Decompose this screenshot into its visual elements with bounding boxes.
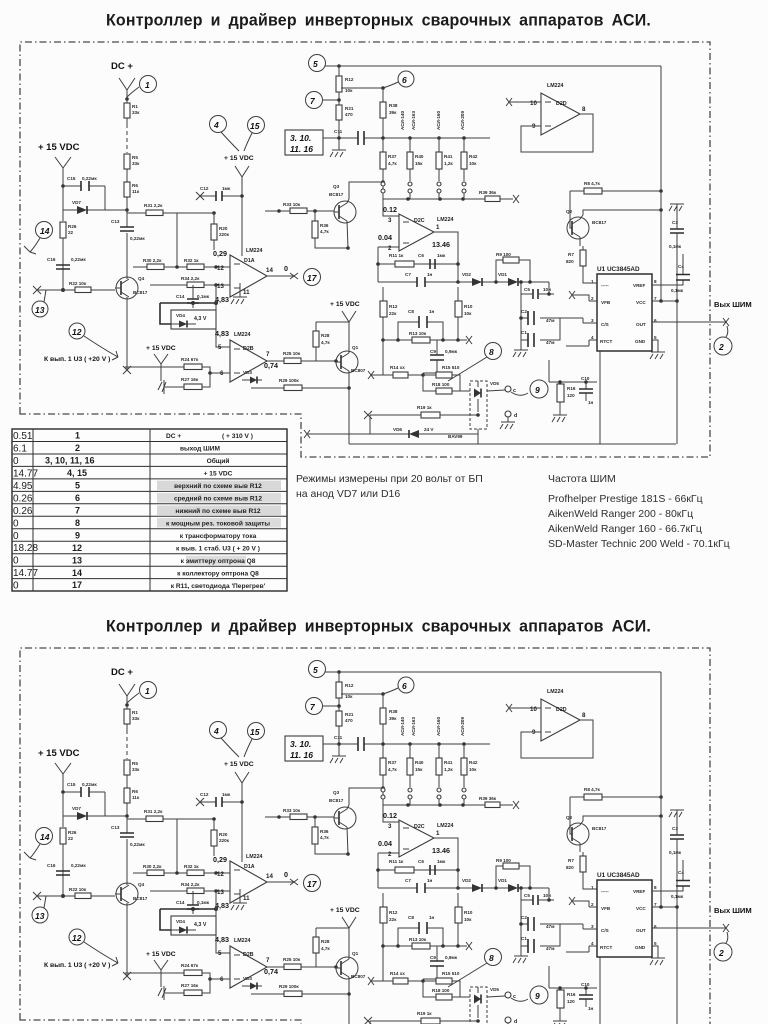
svg-text:7: 7 bbox=[75, 505, 80, 515]
wire c to 9 bbox=[511, 392, 528, 395]
svg-text:13.46: 13.46 bbox=[432, 240, 450, 249]
svg-text:R7: R7 bbox=[568, 252, 574, 257]
svg-text:4,83: 4,83 bbox=[215, 329, 229, 338]
RTCT wire bbox=[566, 340, 589, 346]
svg-text:0: 0 bbox=[13, 531, 19, 542]
svg-text:на анод VD7 или D16: на анод VD7 или D16 bbox=[296, 488, 400, 500]
bus wire with C11 bbox=[323, 137, 490, 139]
svg-text:выход ШИМ: выход ШИМ bbox=[180, 446, 221, 453]
svg-text:2: 2 bbox=[591, 296, 594, 301]
terminal Y mid bbox=[235, 166, 249, 196]
svg-text:8: 8 bbox=[489, 347, 494, 357]
svg-text:5: 5 bbox=[313, 59, 318, 69]
svg-text:C6: C6 bbox=[418, 253, 424, 258]
svg-text:R8 4,7к: R8 4,7к bbox=[584, 181, 601, 186]
op-amp D2C LM224 bbox=[399, 214, 434, 251]
svg-text:2: 2 bbox=[388, 245, 392, 252]
inner vertical under U1 bbox=[599, 351, 601, 444]
svg-text:47м: 47м bbox=[546, 318, 555, 323]
svg-text:7: 7 bbox=[266, 351, 270, 358]
resistor R12 10k bbox=[336, 76, 342, 92]
svg-text:R31 2,2к: R31 2,2к bbox=[144, 203, 163, 208]
open contact dots column 3 bbox=[437, 182, 441, 186]
svg-text:7: 7 bbox=[654, 296, 657, 301]
svg-text:VD7: VD7 bbox=[72, 200, 81, 205]
ground under cap rail bbox=[513, 350, 528, 357]
svg-text:VCC: VCC bbox=[636, 300, 646, 305]
Q4 emitter wire bbox=[126, 302, 128, 370]
svg-text:0: 0 bbox=[13, 518, 19, 529]
junction bbox=[61, 184, 65, 188]
transistor Q2 BC817 bbox=[567, 217, 589, 239]
svg-text:R28: R28 bbox=[321, 333, 330, 338]
svg-text:0,22мк: 0,22мк bbox=[82, 176, 97, 181]
svg-text:C5: C5 bbox=[524, 287, 530, 292]
right bus vertical bbox=[660, 66, 662, 301]
opto dashed box bbox=[470, 381, 487, 429]
measurement bus wire bbox=[383, 198, 513, 200]
junction dots on bus bbox=[381, 136, 385, 140]
wire node7 to R21 bbox=[323, 99, 339, 101]
svg-text:10к: 10к bbox=[469, 161, 477, 166]
node 2 bbox=[714, 337, 732, 355]
svg-text:D2C: D2C bbox=[414, 218, 425, 224]
svg-text:24 V: 24 V bbox=[424, 427, 434, 432]
svg-text:0,1мк: 0,1мк bbox=[669, 244, 682, 249]
resistor R7 820 bbox=[580, 250, 586, 266]
junction dots bbox=[396, 338, 400, 342]
svg-text:R19 1к: R19 1к bbox=[417, 405, 432, 410]
node 13 bbox=[32, 301, 48, 317]
transistor Q1 BC807 bbox=[336, 351, 358, 373]
junction bbox=[125, 97, 129, 101]
wires columns to bus bbox=[410, 193, 464, 199]
svg-text:+ 15 VDC: + 15 VDC bbox=[330, 301, 360, 308]
open contact dots column 2 bbox=[408, 182, 412, 186]
svg-text:18.28: 18.28 bbox=[13, 543, 38, 554]
wire node13 up bbox=[44, 290, 46, 302]
svg-text:6: 6 bbox=[402, 75, 407, 85]
svg-text:6.1: 6.1 bbox=[13, 444, 27, 455]
wire VD4 to D2B input bbox=[216, 285, 230, 347]
VCC rail down to bus bbox=[676, 301, 678, 444]
svg-text:11. 16: 11. 16 bbox=[290, 144, 313, 154]
svg-text:33к: 33к bbox=[132, 161, 140, 166]
svg-text:R32 1к: R32 1к bbox=[184, 258, 199, 263]
svg-text:R26: R26 bbox=[68, 224, 77, 229]
ground left of R27 bbox=[158, 380, 170, 394]
svg-text:R11 1к: R11 1к bbox=[389, 253, 404, 258]
svg-text:0,29: 0,29 bbox=[213, 249, 227, 258]
junction bbox=[214, 283, 218, 287]
terminal x R14 bbox=[368, 371, 374, 379]
junction bbox=[277, 209, 281, 213]
svg-text:R40: R40 bbox=[415, 154, 424, 159]
svg-text:R39 36к: R39 36к bbox=[479, 190, 497, 195]
svg-text:8: 8 bbox=[654, 279, 657, 284]
svg-text:DC +: DC + bbox=[166, 433, 181, 440]
svg-text:DC +: DC + bbox=[111, 61, 133, 72]
svg-text:3: 3 bbox=[388, 217, 392, 224]
svg-text:d: d bbox=[514, 413, 517, 419]
VFB wire bbox=[569, 291, 589, 301]
svg-text:АСИ-140: АСИ-140 bbox=[400, 111, 405, 130]
transistor Q4 BC817 bbox=[116, 277, 138, 299]
svg-text:1: 1 bbox=[591, 279, 594, 284]
zener box VD4 4,3V bbox=[171, 310, 216, 329]
svg-text:0.12: 0.12 bbox=[383, 205, 397, 214]
terminal arrow below node 14 bbox=[24, 238, 40, 254]
highlight shading bbox=[157, 481, 281, 491]
junction bbox=[476, 413, 480, 417]
svg-text:BAV99: BAV99 bbox=[448, 434, 463, 439]
svg-text:1: 1 bbox=[145, 80, 150, 90]
svg-text:R12: R12 bbox=[389, 304, 398, 309]
junction bbox=[456, 280, 460, 284]
svg-text:13: 13 bbox=[35, 305, 45, 315]
svg-text:BC817: BC817 bbox=[592, 220, 607, 225]
svg-text:C13: C13 bbox=[111, 219, 120, 224]
svg-text:R25 10к: R25 10к bbox=[283, 351, 301, 356]
ground at C3 bbox=[669, 204, 684, 229]
svg-text:2: 2 bbox=[718, 342, 724, 352]
junction dots R11 net bbox=[376, 262, 380, 266]
svg-text:R10: R10 bbox=[464, 304, 473, 309]
svg-text:AikenWeld Ranger 160 - 66.7кГц: AikenWeld Ranger 160 - 66.7кГц bbox=[548, 523, 702, 535]
junction bbox=[208, 371, 212, 375]
svg-text:14.77: 14.77 bbox=[13, 468, 38, 479]
svg-text:4,7к: 4,7к bbox=[321, 340, 330, 345]
svg-text:к трансформатору тока: к трансформатору тока bbox=[180, 533, 257, 540]
svg-text:1мк: 1мк bbox=[222, 186, 231, 191]
terminal c bbox=[505, 386, 511, 392]
svg-text:17: 17 bbox=[72, 580, 82, 590]
wire R12 tap to node 6 bbox=[341, 82, 398, 88]
ground under R16 bbox=[552, 415, 567, 422]
svg-text:VD5: VD5 bbox=[490, 381, 499, 386]
wires nodes 4/15 to +15VDC bbox=[221, 132, 252, 151]
terminal d bbox=[505, 411, 511, 417]
svg-text:120: 120 bbox=[567, 393, 575, 398]
svg-text:LM224: LM224 bbox=[246, 248, 263, 254]
svg-text:C9: C9 bbox=[430, 349, 436, 354]
pin 11 ground bbox=[231, 283, 247, 304]
svg-text:Общий: Общий bbox=[207, 457, 230, 465]
zener diode symbol bbox=[171, 323, 196, 325]
svg-text:Вых ШИМ: Вых ШИМ bbox=[714, 300, 752, 309]
svg-text:0.04: 0.04 bbox=[378, 233, 392, 242]
svg-text:AikenWeld Ranger 200 - 80кГц: AikenWeld Ranger 200 - 80кГц bbox=[548, 508, 693, 520]
terminal Y Q1 bbox=[342, 311, 356, 351]
svg-text:13: 13 bbox=[72, 555, 82, 565]
svg-text:к коллектору оптрона Q8: к коллектору оптрона Q8 bbox=[177, 571, 259, 578]
op-amp D2D bbox=[541, 93, 580, 135]
svg-text:5: 5 bbox=[75, 481, 80, 491]
svg-text:VD3: VD3 bbox=[243, 370, 252, 375]
Q1 down wire to bottom bus bbox=[348, 388, 350, 444]
svg-text:14: 14 bbox=[266, 267, 273, 274]
junction VCC bbox=[659, 299, 663, 303]
Q3 collector wire bbox=[349, 182, 383, 199]
transistor Q3 BC817 bbox=[334, 201, 356, 223]
resistor R10 10k bbox=[455, 301, 462, 317]
svg-text:C11: C11 bbox=[334, 129, 343, 134]
svg-text:0,9мк: 0,9мк bbox=[445, 349, 458, 354]
svg-text:BC817: BC817 bbox=[133, 290, 148, 295]
svg-text:14: 14 bbox=[72, 568, 82, 578]
svg-text:470: 470 bbox=[345, 112, 353, 117]
measurement table bbox=[12, 429, 287, 592]
resistor R1 33k bbox=[126, 99, 128, 124]
junction bbox=[125, 208, 129, 212]
resistor R16 120 bbox=[557, 384, 564, 402]
terminal x R39 bbox=[513, 195, 519, 203]
svg-text:-----: ----- bbox=[601, 283, 609, 288]
svg-text:0.26: 0.26 bbox=[13, 506, 33, 517]
junction bbox=[61, 288, 65, 292]
svg-text:C10: C10 bbox=[581, 376, 590, 381]
svg-text:R20: R20 bbox=[219, 226, 228, 231]
junction bbox=[337, 64, 341, 68]
node 6 bbox=[398, 71, 414, 87]
svg-text:R6: R6 bbox=[132, 183, 138, 188]
svg-text:C7: C7 bbox=[405, 272, 411, 277]
wire PWM to node 2 bbox=[726, 326, 728, 337]
wire R6 down bbox=[126, 197, 128, 224]
open contact dots column 4 bbox=[462, 182, 466, 186]
ground under C11 bus bbox=[330, 138, 346, 157]
wire R5-R6 bbox=[126, 169, 128, 182]
svg-text:R12: R12 bbox=[345, 77, 354, 82]
resistor R40 15k bbox=[407, 152, 413, 169]
svg-text:12: 12 bbox=[217, 265, 224, 272]
resistor R20 220k bbox=[211, 224, 217, 240]
svg-text:C8: C8 bbox=[408, 309, 414, 314]
svg-text:0: 0 bbox=[13, 556, 19, 567]
svg-text:0.51: 0.51 bbox=[13, 431, 33, 442]
wire R26 to C16 bbox=[62, 238, 64, 290]
svg-text:VD6: VD6 bbox=[393, 427, 402, 432]
svg-text:5: 5 bbox=[218, 344, 222, 351]
Q1 emitter junction bbox=[347, 386, 351, 390]
D2B output wire bbox=[267, 360, 284, 362]
svg-text:+ 15 VDC: + 15 VDC bbox=[146, 345, 176, 352]
svg-text:Контроллер и драйвер инверторн: Контроллер и драйвер инверторных сварочн… bbox=[106, 12, 651, 30]
svg-text:14: 14 bbox=[40, 226, 50, 236]
resistor R41 1,2k bbox=[436, 152, 442, 169]
svg-text:RTCT: RTCT bbox=[600, 339, 612, 344]
svg-text:GND: GND bbox=[635, 339, 646, 344]
svg-text:R24 67к: R24 67к bbox=[181, 357, 199, 362]
op-amp D2B bbox=[230, 340, 267, 382]
svg-text:Profhelper Prestige 181S - 66к: Profhelper Prestige 181S - 66кГц bbox=[548, 493, 703, 505]
svg-text:6: 6 bbox=[75, 493, 80, 503]
op-amp D1A LM224 bbox=[230, 255, 267, 297]
svg-text:9: 9 bbox=[75, 530, 80, 540]
node 9 bbox=[530, 380, 548, 398]
svg-text:4,7к: 4,7к bbox=[388, 161, 397, 166]
junction R16 bus bbox=[549, 360, 597, 382]
svg-text:0: 0 bbox=[13, 581, 19, 592]
svg-text:1: 1 bbox=[436, 224, 440, 231]
svg-text:R15 510: R15 510 bbox=[442, 365, 460, 370]
D1A output wire bbox=[267, 275, 295, 277]
svg-text:R13 10к: R13 10к bbox=[409, 331, 427, 336]
svg-text:LM224: LM224 bbox=[234, 332, 251, 338]
svg-text:средний по схеме выв R12: средний по схеме выв R12 bbox=[174, 495, 262, 503]
D2D feedback loop bbox=[521, 114, 593, 152]
svg-text:SD-Master Technic 200 Weld - 7: SD-Master Technic 200 Weld - 70.1кГц bbox=[548, 538, 730, 550]
svg-text:BC807: BC807 bbox=[351, 368, 366, 373]
svg-text:LM224: LM224 bbox=[547, 83, 564, 89]
svg-text:к выв. 1 стаб. U3 ( + 20: к выв. 1 стаб. U3 ( + 20 V ) bbox=[176, 545, 260, 553]
svg-text:0: 0 bbox=[13, 456, 19, 467]
resistor R5 33k bbox=[124, 154, 130, 169]
node 5 bbox=[309, 55, 326, 72]
svg-text:OUT: OUT bbox=[636, 322, 646, 327]
junction bbox=[381, 338, 385, 342]
svg-text:R38: R38 bbox=[389, 103, 398, 108]
svg-text:VREF: VREF bbox=[633, 283, 645, 288]
terminal x R13 bbox=[466, 336, 472, 344]
resistor R26 22 bbox=[60, 222, 66, 238]
wire rail down bbox=[63, 186, 105, 221]
D2D input wire with x bbox=[510, 101, 541, 103]
svg-text:R22 10к: R22 10к bbox=[69, 281, 87, 286]
node 4 bbox=[210, 116, 227, 133]
svg-text:R34 2,2к: R34 2,2к bbox=[181, 276, 200, 281]
dashed wire R1-R5 bbox=[126, 124, 128, 153]
svg-text:R9 100: R9 100 bbox=[496, 252, 511, 257]
svg-text:C2: C2 bbox=[521, 309, 527, 314]
svg-text:1н: 1н bbox=[427, 272, 433, 277]
wire opto to bus bbox=[477, 429, 479, 444]
svg-text:C14: C14 bbox=[176, 294, 185, 299]
svg-text:10к: 10к bbox=[464, 311, 472, 316]
junction bbox=[175, 265, 179, 269]
U1 left pin wires bbox=[583, 301, 597, 340]
svg-text:R30 2,2к: R30 2,2к bbox=[143, 258, 162, 263]
terminal Y at DC+ bbox=[119, 78, 135, 99]
resistor R38 39k bbox=[380, 102, 386, 118]
node 12 bbox=[69, 323, 85, 339]
svg-text:VD1: VD1 bbox=[498, 272, 507, 277]
svg-text:33к: 33к bbox=[132, 110, 140, 115]
wire node8 diagonal bbox=[448, 357, 487, 381]
svg-text:0: 0 bbox=[284, 264, 288, 273]
svg-text:Q2: Q2 bbox=[566, 209, 573, 214]
resistor R21 470 bbox=[336, 105, 342, 120]
wire node1 to rail bbox=[127, 87, 139, 97]
svg-text:Q1: Q1 bbox=[352, 345, 359, 350]
SCHEMATIC GROUP (used twice) bbox=[20, 12, 752, 458]
svg-text:1н: 1н bbox=[429, 309, 435, 314]
svg-text:R41: R41 bbox=[444, 154, 453, 159]
svg-text:4, 15: 4, 15 bbox=[67, 468, 87, 478]
svg-text:10к: 10к bbox=[345, 88, 353, 93]
terminal x PWM out bbox=[723, 318, 729, 326]
svg-text:4: 4 bbox=[591, 335, 594, 340]
svg-text:R36: R36 bbox=[320, 223, 329, 228]
wire +15 rail down bbox=[241, 196, 243, 256]
svg-text:D1A: D1A bbox=[244, 258, 255, 264]
svg-text:Режимы измерены при 20 вольт о: Режимы измерены при 20 вольт от БП bbox=[296, 473, 483, 485]
node 17 bbox=[304, 269, 321, 286]
Q2 collector wire bbox=[583, 210, 661, 215]
svg-text:15к: 15к bbox=[415, 161, 423, 166]
svg-text:220к: 220к bbox=[219, 232, 230, 237]
wire R37 down bbox=[382, 169, 384, 199]
resistor R6 11k bbox=[124, 182, 130, 197]
svg-text:12: 12 bbox=[72, 327, 82, 337]
svg-text:к эмиттеру оптрона Q8: к эмиттеру оптрона Q8 bbox=[181, 558, 256, 565]
bottom bus wire bbox=[349, 443, 676, 445]
svg-text:3: 3 bbox=[591, 318, 594, 323]
svg-text:R5: R5 bbox=[132, 155, 138, 160]
svg-text:3. 10.: 3. 10. bbox=[290, 133, 311, 143]
svg-text:R37: R37 bbox=[388, 154, 397, 159]
svg-text:C15: C15 bbox=[67, 176, 76, 181]
open contact dots column 1 bbox=[381, 182, 385, 186]
svg-text:4: 4 bbox=[213, 120, 219, 130]
junction bbox=[337, 136, 341, 140]
svg-text:( + 310 V ): ( + 310 V ) bbox=[222, 433, 253, 440]
svg-text:АСИ-209: АСИ-209 bbox=[460, 111, 465, 130]
svg-text:R18 100: R18 100 bbox=[432, 382, 450, 387]
resistor R36 4,7k bbox=[312, 221, 318, 238]
svg-text:4,7к: 4,7к bbox=[320, 229, 329, 234]
svg-text:C3: C3 bbox=[672, 220, 678, 225]
wire to diodes bbox=[458, 281, 549, 283]
svg-text:C/S: C/S bbox=[601, 322, 609, 327]
svg-text:R1: R1 bbox=[132, 104, 138, 109]
svg-text:8: 8 bbox=[75, 518, 80, 528]
svg-text:15: 15 bbox=[250, 121, 260, 131]
node 8 bbox=[485, 343, 502, 360]
svg-text:+ 15 VDC: + 15 VDC bbox=[38, 142, 80, 153]
C/S node wires bbox=[560, 318, 583, 323]
svg-text:5: 5 bbox=[654, 335, 657, 340]
svg-text:17: 17 bbox=[307, 273, 318, 283]
svg-text:0,74: 0,74 bbox=[264, 361, 278, 370]
svg-text:0.26: 0.26 bbox=[13, 493, 33, 504]
node 15 bbox=[248, 117, 265, 134]
svg-text:к мощным рез. токовой защи: к мощным рез. токовой защиты bbox=[166, 520, 270, 528]
svg-text:АСИ-160: АСИ-160 bbox=[436, 111, 441, 130]
table grid lines bbox=[12, 442, 287, 579]
svg-text:+ 15 VDC: + 15 VDC bbox=[204, 471, 233, 478]
svg-text:Q4: Q4 bbox=[138, 276, 145, 281]
wire node12 to terminal bbox=[84, 336, 118, 360]
svg-text:1мк: 1мк bbox=[437, 253, 446, 258]
second schematic copy bbox=[20, 618, 752, 1024]
pin group box 3,10,11,16 bbox=[285, 130, 323, 155]
svg-text:4,3 V: 4,3 V bbox=[194, 316, 207, 322]
svg-text:13: 13 bbox=[217, 283, 224, 290]
svg-text:C16: C16 bbox=[47, 257, 56, 262]
notes bbox=[296, 473, 730, 550]
wire R8 left down to Q2 base bbox=[570, 191, 572, 228]
junction bbox=[334, 359, 338, 363]
thick node wire bbox=[160, 303, 216, 324]
junction bbox=[240, 194, 244, 198]
junction bbox=[214, 301, 218, 305]
ground under d bbox=[500, 417, 515, 429]
dashed frame border bbox=[20, 42, 710, 457]
svg-text:нижний по схеме выв R12: нижний по схеме выв R12 bbox=[175, 507, 261, 515]
svg-text:10н: 10н bbox=[543, 287, 551, 292]
svg-text:C12: C12 bbox=[200, 186, 209, 191]
